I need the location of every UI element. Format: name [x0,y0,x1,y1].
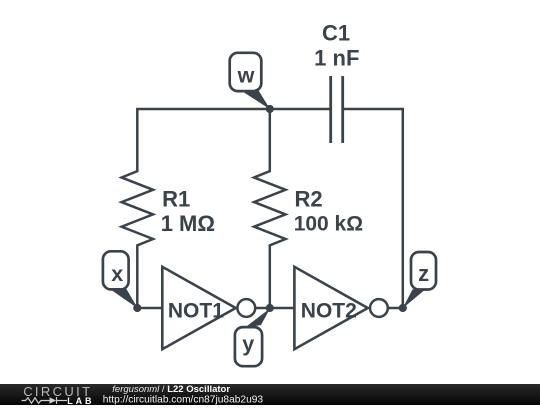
svg-text:R2: R2 [295,187,323,212]
svg-text:x: x [111,262,123,286]
svg-text:http://circuitlab.com/cn87ju8a: http://circuitlab.com/cn87ju8ab2u93 [103,394,264,405]
svg-text:100 kΩ: 100 kΩ [294,213,363,236]
svg-text:y: y [242,332,254,356]
svg-text:1 MΩ: 1 MΩ [161,211,215,236]
svg-text:z: z [418,261,429,286]
svg-text:NOT2: NOT2 [301,300,357,323]
svg-text:LAB: LAB [67,396,94,405]
svg-text:C1: C1 [322,21,350,46]
svg-text:NOT1: NOT1 [168,299,224,322]
svg-text:1 nF: 1 nF [314,46,359,71]
svg-text:w: w [237,64,255,88]
svg-text:R1: R1 [162,187,190,212]
